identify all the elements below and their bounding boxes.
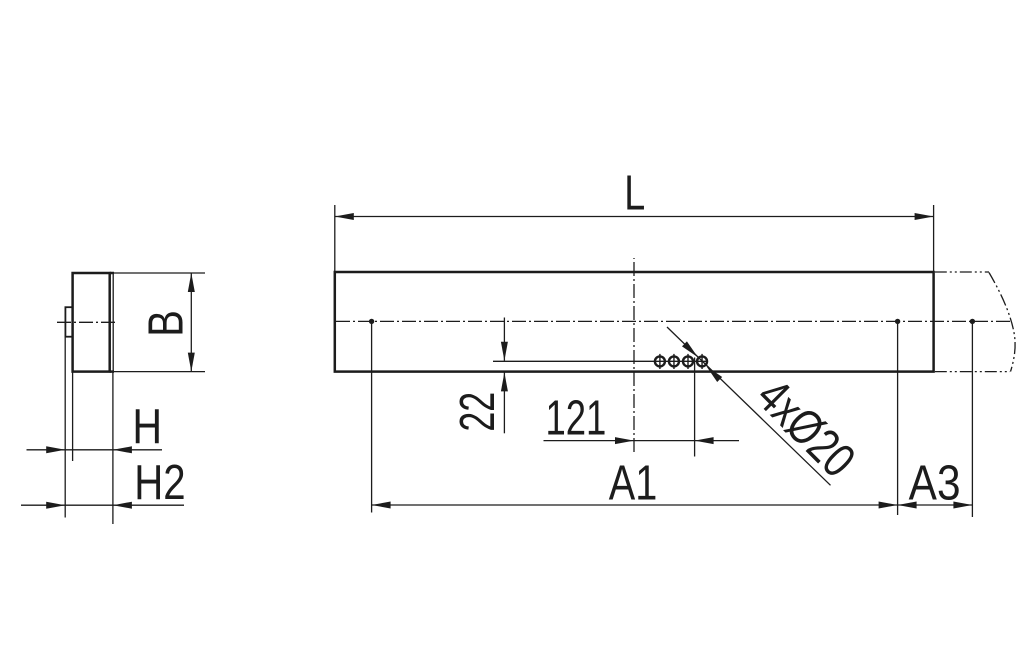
dim A3 extension line right <box>971 321 973 517</box>
leader line 4xO20 <box>667 327 831 485</box>
phantom extension bottom right <box>935 371 1010 373</box>
side view end-cap body <box>73 273 110 372</box>
dim B dimension line <box>190 273 192 372</box>
dim H dimension line <box>27 449 163 451</box>
dim A1 extension line right <box>897 321 899 515</box>
dim A1 arrow left <box>372 502 391 509</box>
hole 2 <box>669 356 679 366</box>
svg-text:22: 22 <box>450 392 505 432</box>
svg-text:B: B <box>140 310 194 337</box>
side view top joint segment <box>110 272 114 275</box>
break line curve <box>989 273 1015 372</box>
hole 1 <box>655 356 665 366</box>
dim L arrow left <box>335 213 354 220</box>
side view bottom joint segment <box>110 370 114 373</box>
node A1 right <box>895 319 900 324</box>
dim 22 upper line <box>503 318 505 361</box>
hole 3 <box>683 356 693 366</box>
dim H2 arrow left <box>113 502 132 509</box>
dim A1 extension line left <box>371 321 373 512</box>
svg-text:L: L <box>624 166 645 221</box>
dim H arrow left <box>113 446 132 453</box>
svg-text:H: H <box>132 399 162 454</box>
dim 22 arrow up <box>501 372 508 391</box>
dim B extension line top <box>110 272 205 274</box>
dim B arrow up <box>188 273 195 292</box>
dim A3 arrow left <box>898 502 917 509</box>
dim 121 dimension line <box>544 440 740 442</box>
dim L extension line left <box>334 205 336 272</box>
svg-text:4xØ20: 4xØ20 <box>746 369 865 488</box>
extension line tab face <box>64 338 66 518</box>
extension line rear face <box>112 372 114 524</box>
node A1 left <box>369 319 374 324</box>
svg-text:121: 121 <box>545 391 606 445</box>
svg-text:H2: H2 <box>134 455 185 510</box>
leader arrow upper <box>682 341 698 357</box>
dim 22 lower line <box>503 372 505 433</box>
dim A1 dimension line <box>372 504 898 506</box>
main view horizontal centerline <box>336 320 1012 322</box>
dim 121 arrow right at centerline <box>615 437 634 444</box>
main view profile body <box>335 272 934 372</box>
hole axis line <box>493 360 708 362</box>
svg-text:A3: A3 <box>909 456 961 511</box>
dim 121 extension line <box>694 358 696 457</box>
main view vertical centerline <box>633 258 635 452</box>
dim A1 arrow right <box>879 502 898 509</box>
leader arrow lower <box>706 366 722 382</box>
side view centerline <box>57 321 115 323</box>
dim H2 arrow right <box>46 502 65 509</box>
node A3 right <box>970 319 975 324</box>
dim H2 dimension line <box>21 504 184 506</box>
dim H arrow right <box>46 446 65 453</box>
dim L dimension line <box>335 216 934 218</box>
dim 22 arrow down <box>501 342 508 361</box>
dim B extension line bottom <box>110 371 205 373</box>
extension line cap face <box>72 372 74 461</box>
hole 4 <box>697 356 707 366</box>
dim A3 dimension line <box>898 504 973 506</box>
side view button tab <box>65 307 72 337</box>
dim 121 arrow left at hole line <box>695 437 714 444</box>
phantom extension top right <box>935 271 989 273</box>
dim B arrow down <box>188 353 195 372</box>
dim L extension line right <box>933 205 935 272</box>
svg-text:A1: A1 <box>609 456 658 510</box>
dim L arrow right <box>915 213 934 220</box>
side view profile rear edge <box>112 272 114 372</box>
dim A3 arrow right <box>953 502 972 509</box>
